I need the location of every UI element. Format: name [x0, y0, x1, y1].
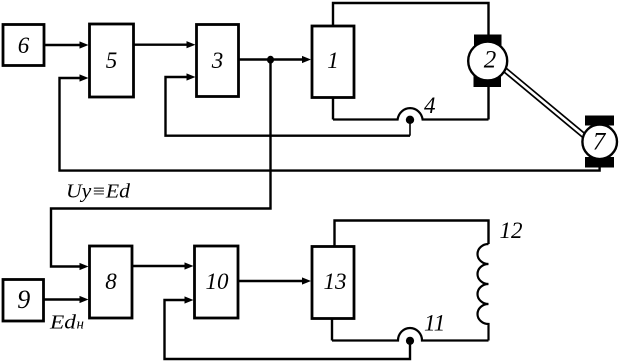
- svg-text:10: 10: [206, 269, 230, 294]
- svg-text:5: 5: [106, 48, 118, 73]
- svg-text:13: 13: [324, 269, 347, 294]
- svg-text:4: 4: [424, 93, 436, 118]
- svg-text:3: 3: [211, 48, 224, 73]
- svg-text:н: н: [77, 317, 84, 333]
- svg-text:Ed: Ed: [49, 313, 76, 334]
- svg-text:6: 6: [18, 33, 30, 58]
- svg-text:7: 7: [593, 129, 607, 156]
- svg-text:8: 8: [105, 269, 117, 294]
- svg-text:9: 9: [17, 285, 30, 314]
- svg-text:1: 1: [327, 48, 339, 73]
- svg-text:2: 2: [484, 47, 497, 74]
- svg-text:Uy≡Ed: Uy≡Ed: [66, 182, 130, 203]
- svg-text:11: 11: [424, 311, 445, 336]
- svg-text:12: 12: [500, 218, 523, 243]
